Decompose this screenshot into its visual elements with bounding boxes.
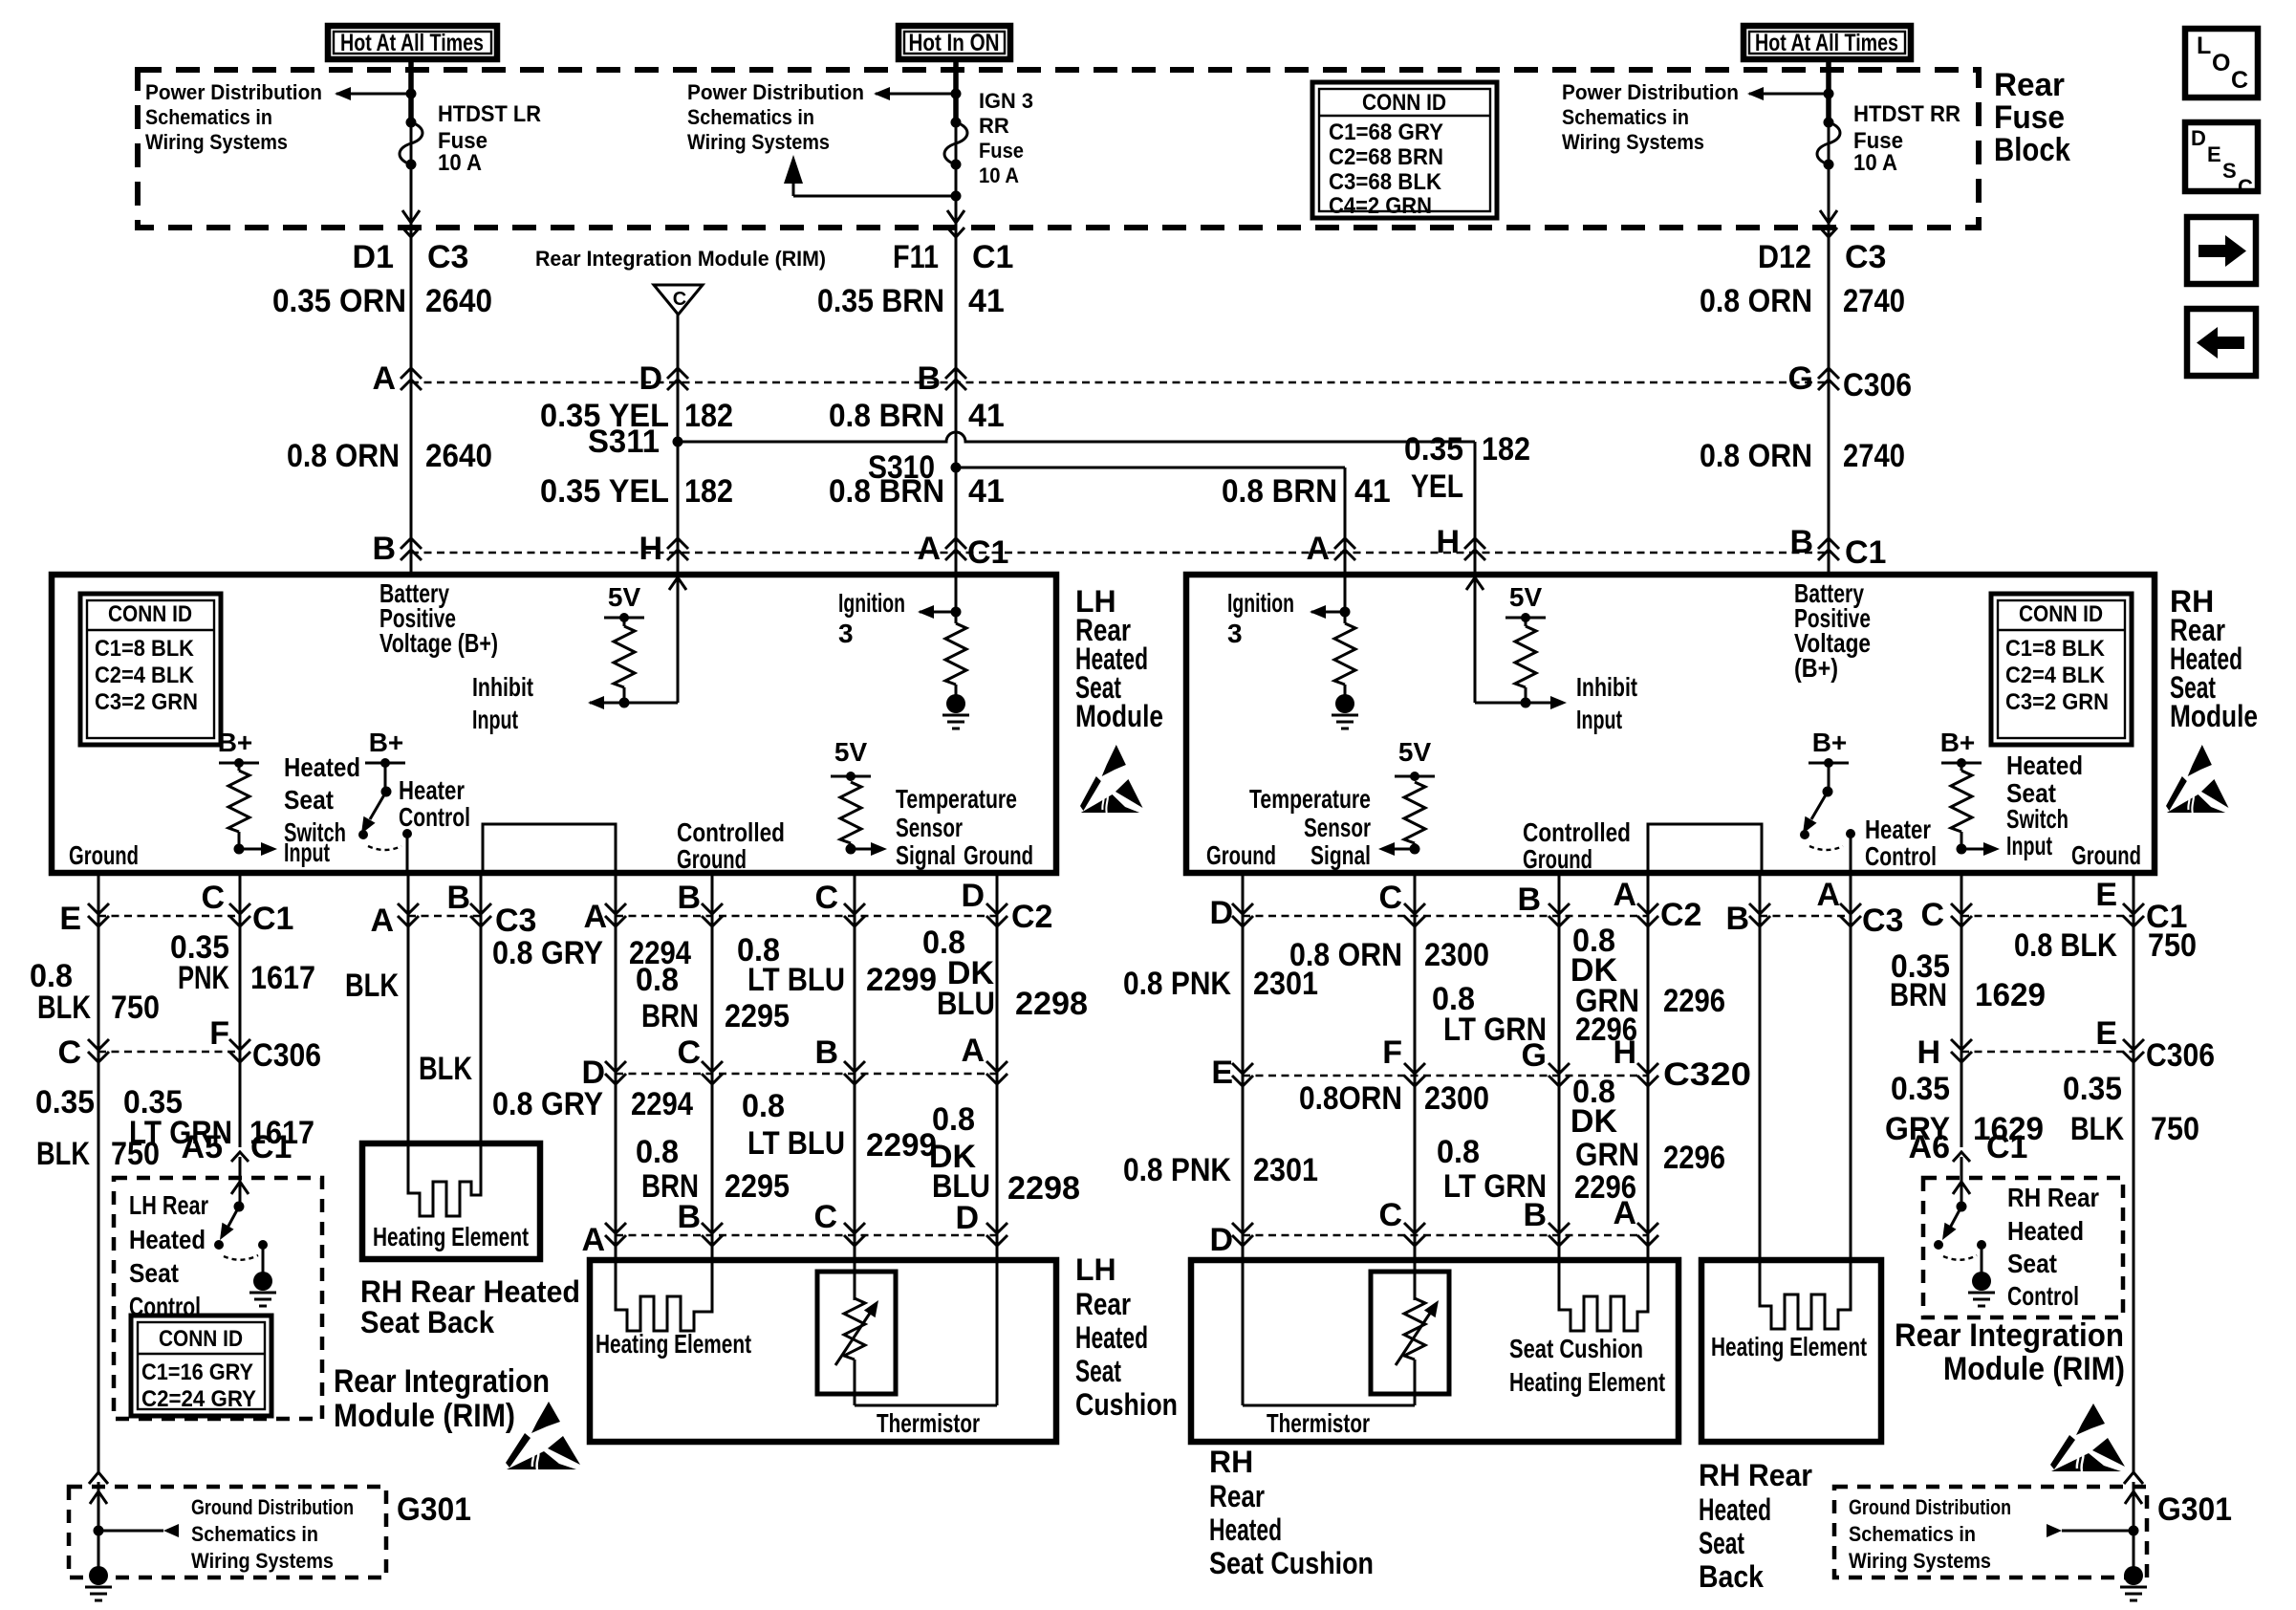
ESD symbol RH xyxy=(2166,745,2229,813)
svg-text:C2: C2 xyxy=(1660,897,1701,933)
svg-text:10 A: 10 A xyxy=(1853,150,1897,176)
CONN ID box (fuse block) xyxy=(1312,82,1497,219)
RH 5V temperature resistor xyxy=(1378,737,1435,856)
LH module name xyxy=(1075,584,1163,733)
svg-text:Ground: Ground xyxy=(677,844,747,874)
arrow left box xyxy=(2187,309,2256,376)
svg-text:Control: Control xyxy=(2007,1281,2079,1311)
svg-text:B: B xyxy=(446,880,470,916)
svg-text:Sensor: Sensor xyxy=(1304,813,1371,842)
svg-text:C: C xyxy=(1378,1197,1402,1233)
svg-text:GRN: GRN xyxy=(1575,1137,1639,1173)
svg-text:YEL: YEL xyxy=(1411,468,1463,505)
RIM triangle connector C xyxy=(654,285,703,315)
G301 left dashed box xyxy=(69,1482,471,1600)
svg-text:Heating Element: Heating Element xyxy=(596,1329,751,1359)
svg-text:3: 3 xyxy=(1227,619,1243,648)
label box Hot In ON xyxy=(899,26,1010,59)
ESD symbol LH xyxy=(1080,745,1143,813)
arrow to Power Distribution (middle) xyxy=(874,87,962,100)
connector row C1 modules (top) xyxy=(372,524,1886,571)
svg-text:Schematics in: Schematics in xyxy=(1849,1522,1976,1546)
svg-text:Sensor: Sensor xyxy=(896,813,963,842)
svg-text:H: H xyxy=(1917,1034,1940,1071)
LH switch input wire 1617 xyxy=(239,873,242,1147)
wire label 0.35 PNK 1617 xyxy=(170,929,315,996)
svg-text:2640: 2640 xyxy=(425,283,492,319)
splice S310 line xyxy=(868,449,1345,486)
svg-text:Control: Control xyxy=(399,802,470,832)
wire label 0.35 ORN 2640 xyxy=(272,283,492,319)
wire label 0.8 GRY 2294 xyxy=(492,935,691,971)
svg-text:L: L xyxy=(2197,33,2211,59)
svg-text:2740: 2740 xyxy=(1843,283,1905,319)
svg-text:C3: C3 xyxy=(495,903,536,939)
svg-text:B: B xyxy=(372,531,396,567)
svg-text:0.8 GRY: 0.8 GRY xyxy=(492,1086,603,1122)
svg-text:Switch: Switch xyxy=(2006,804,2069,834)
Controlled Ground label LH xyxy=(677,817,785,874)
svg-text:A: A xyxy=(370,903,394,939)
wire label 0.8 LT GRN 2296 xyxy=(1432,981,1637,1048)
LH ground wire 750 xyxy=(89,873,108,1484)
svg-text:750: 750 xyxy=(2151,1111,2199,1147)
svg-text:Heated: Heated xyxy=(2006,751,2083,780)
svg-text:Seat Cushion: Seat Cushion xyxy=(1509,1334,1643,1363)
svg-text:Signal: Signal xyxy=(1310,840,1371,870)
svg-text:LH: LH xyxy=(1075,1252,1116,1287)
svg-text:H: H xyxy=(1613,1034,1636,1071)
svg-text:Ground Distribution: Ground Distribution xyxy=(1849,1495,2011,1519)
wire label 0.8 ORN 2640 (lower left) xyxy=(287,438,492,474)
svg-text:Heated: Heated xyxy=(2007,1216,2084,1246)
svg-text:Seat Cushion: Seat Cushion xyxy=(1209,1546,1374,1580)
svg-text:A: A xyxy=(1306,531,1330,567)
svg-text:C1=16 GRY: C1=16 GRY xyxy=(141,1360,253,1385)
Temperature Sensor Signal label RH xyxy=(1249,784,1371,870)
svg-text:0.8: 0.8 xyxy=(742,1088,785,1124)
svg-text:2300: 2300 xyxy=(1424,1080,1489,1117)
wire label 0.8 DK GRN 2296 (lower) xyxy=(1570,1074,1725,1176)
svg-text:Ground: Ground xyxy=(964,840,1033,870)
RH module name xyxy=(2170,584,2258,733)
svg-text:Seat: Seat xyxy=(1699,1526,1744,1560)
svg-text:Rear: Rear xyxy=(1994,67,2065,103)
svg-text:B+: B+ xyxy=(218,728,253,757)
svg-text:C: C xyxy=(2238,175,2253,199)
svg-text:C3=2 GRN: C3=2 GRN xyxy=(2005,689,2109,715)
svg-text:G: G xyxy=(1788,360,1813,397)
svg-text:Controlled: Controlled xyxy=(1523,817,1631,847)
svg-text:Heated: Heated xyxy=(284,752,360,782)
svg-text:D: D xyxy=(955,1200,979,1236)
wire label 0.35 GRY 1629 (lower) xyxy=(1885,1071,2044,1147)
svg-text:A: A xyxy=(583,899,607,935)
svg-text:C: C xyxy=(2231,67,2248,94)
svg-text:41: 41 xyxy=(968,283,1005,319)
fuse IGN3 RR xyxy=(944,89,1033,187)
svg-text:C1: C1 xyxy=(967,534,1008,571)
svg-text:0.35: 0.35 xyxy=(35,1084,95,1120)
svg-text:Temperature: Temperature xyxy=(896,784,1017,814)
svg-text:C1: C1 xyxy=(250,1129,292,1165)
connector C1 pins E,C (LH) xyxy=(59,880,293,937)
LH cushion wire B 2295 xyxy=(711,873,714,1260)
RH cushion inline connector pins D,C,B,A xyxy=(1209,1195,1658,1258)
svg-text:F: F xyxy=(209,1015,229,1052)
svg-text:2296: 2296 xyxy=(1663,1140,1725,1176)
svg-text:Ground: Ground xyxy=(69,840,139,870)
svg-text:Seat: Seat xyxy=(129,1258,179,1288)
RH seat back wire A xyxy=(1850,873,1852,1260)
wire label 0.8 GRY 2294 (lower) xyxy=(492,1086,693,1122)
svg-text:5V: 5V xyxy=(834,737,868,767)
svg-text:0.35 YEL: 0.35 YEL xyxy=(540,473,669,510)
svg-text:A: A xyxy=(1613,877,1636,913)
svg-text:C320: C320 xyxy=(1663,1056,1751,1093)
pin labels F11 C1 xyxy=(893,239,1013,275)
svg-text:3: 3 xyxy=(838,619,854,648)
svg-text:Heating Element: Heating Element xyxy=(1509,1367,1665,1397)
svg-text:1617: 1617 xyxy=(250,960,315,996)
svg-text:C: C xyxy=(1920,897,1944,933)
LH ignition pulldown resistor + ground xyxy=(942,623,969,729)
svg-text:2299: 2299 xyxy=(866,1127,937,1164)
svg-text:182: 182 xyxy=(1482,431,1530,468)
RH Rear Heated Seat Module box xyxy=(1186,575,2155,873)
svg-text:Heating Element: Heating Element xyxy=(1711,1332,1867,1361)
svg-text:0.35: 0.35 xyxy=(1404,431,1463,468)
RH inhibit wire entry xyxy=(1466,575,1484,703)
svg-text:Rear: Rear xyxy=(1209,1479,1265,1513)
svg-text:G: G xyxy=(1522,1037,1547,1074)
pin labels D1 C3 xyxy=(353,239,469,275)
svg-text:Heated: Heated xyxy=(1209,1512,1282,1547)
svg-text:BLU: BLU xyxy=(937,986,995,1022)
Heater Control label xyxy=(399,775,470,832)
svg-text:HTDST RR: HTDST RR xyxy=(1853,101,1960,127)
svg-text:CONN ID: CONN ID xyxy=(1362,90,1446,116)
svg-text:2298: 2298 xyxy=(1007,1170,1080,1207)
LH cushion connector pins D,C,B,A xyxy=(581,1033,1007,1091)
svg-text:G301: G301 xyxy=(2157,1491,2232,1528)
svg-text:Fuse: Fuse xyxy=(1994,99,2065,136)
svg-text:B: B xyxy=(677,1199,701,1235)
svg-text:0.8: 0.8 xyxy=(932,1101,975,1138)
RH switch input wire 1629 xyxy=(1960,873,1963,1147)
connector C3 pins A,B (LH) xyxy=(370,880,536,939)
svg-text:LH Rear: LH Rear xyxy=(129,1190,208,1220)
svg-text:41: 41 xyxy=(968,398,1005,434)
svg-text:2300: 2300 xyxy=(1424,937,1489,973)
svg-text:C2: C2 xyxy=(1011,899,1052,935)
fuse box exit arrows xyxy=(402,210,420,223)
svg-text:10 A: 10 A xyxy=(979,163,1019,187)
Temperature Sensor Signal label LH xyxy=(896,784,1017,870)
wire label 0.8 DK GRN 2296 xyxy=(1570,923,1725,1019)
svg-text:C1=68 GRY: C1=68 GRY xyxy=(1329,120,1443,145)
svg-text:A: A xyxy=(372,360,396,397)
splice S311 line with hop xyxy=(588,424,1475,460)
svg-text:LT BLU: LT BLU xyxy=(747,1125,845,1162)
text Power Distribution (middle) xyxy=(687,80,864,154)
LH cushion wire A 2294 xyxy=(615,873,617,1260)
wire RIM yellow xyxy=(677,315,680,575)
svg-text:0.8: 0.8 xyxy=(636,1134,679,1170)
svg-text:Ground: Ground xyxy=(1206,840,1276,870)
svg-text:RR: RR xyxy=(979,114,1009,138)
svg-text:C3: C3 xyxy=(427,239,468,275)
wire label 0.8 BRN 2295 (lower) xyxy=(636,1134,790,1205)
svg-text:0.8ORN: 0.8ORN xyxy=(1299,1080,1402,1117)
svg-text:0.35 YEL: 0.35 YEL xyxy=(540,398,669,434)
svg-text:Rear Integration: Rear Integration xyxy=(1895,1317,2124,1354)
svg-text:Heated: Heated xyxy=(129,1225,206,1254)
svg-text:Rear Integration: Rear Integration xyxy=(334,1363,550,1400)
LH gry wire B C3 xyxy=(480,873,483,1143)
svg-text:RH Rear: RH Rear xyxy=(2007,1183,2099,1212)
svg-text:Wiring Systems: Wiring Systems xyxy=(1849,1549,1991,1573)
svg-text:Power Distribution: Power Distribution xyxy=(687,80,864,104)
svg-text:2740: 2740 xyxy=(1843,438,1905,474)
connector Y at fuse outputs xyxy=(402,228,420,237)
svg-text:Ground: Ground xyxy=(1523,844,1592,874)
svg-text:10 A: 10 A xyxy=(438,150,482,176)
LH cushion wire C 2299 xyxy=(854,873,856,1260)
LH Rear Heated Seat Module box xyxy=(52,575,1056,873)
LH 5V temperature resistor xyxy=(831,737,887,856)
wire label 0.35 YEL 182 (above C306) xyxy=(540,398,733,434)
LH heater control wire BLK xyxy=(407,873,410,1143)
svg-text:C1=8 BLK: C1=8 BLK xyxy=(2005,636,2106,662)
svg-text:A: A xyxy=(917,531,941,567)
svg-text:BLK: BLK xyxy=(37,990,91,1026)
wire label 0.8 LT GRN 2296 (lower) xyxy=(1437,1134,1636,1206)
svg-text:2301: 2301 xyxy=(1253,1152,1318,1188)
wire label 0.35 BLK 750 xyxy=(35,1084,160,1172)
svg-text:Schematics in: Schematics in xyxy=(145,105,272,129)
svg-text:BRN: BRN xyxy=(641,998,699,1034)
Ignition 3 label LH xyxy=(838,588,905,648)
Ignition 3 label RH xyxy=(1227,588,1294,648)
svg-text:0.8 ORN: 0.8 ORN xyxy=(1700,438,1812,474)
RH ignition pulldown resistor + ground xyxy=(1332,623,1358,729)
svg-text:B: B xyxy=(1523,1197,1547,1233)
svg-text:Seat: Seat xyxy=(284,785,334,815)
svg-text:0.35 ORN: 0.35 ORN xyxy=(272,283,406,319)
svg-text:C1: C1 xyxy=(252,901,293,937)
svg-text:0.8: 0.8 xyxy=(636,962,679,998)
svg-text:D12: D12 xyxy=(1758,239,1811,275)
svg-text:C3: C3 xyxy=(1862,903,1903,939)
svg-text:Hot At All Times: Hot At All Times xyxy=(340,30,484,56)
RH seat back wire B xyxy=(1759,873,1762,1260)
wire label 0.35 BRN 41 xyxy=(817,283,1005,319)
svg-text:C: C xyxy=(57,1034,81,1071)
DESC box xyxy=(2185,122,2258,199)
svg-text:B+: B+ xyxy=(1812,728,1848,757)
svg-text:Inhibit: Inhibit xyxy=(1576,672,1637,702)
svg-text:Schematics in: Schematics in xyxy=(687,105,814,129)
LH B+ heater control switch xyxy=(356,728,412,873)
LOC box xyxy=(2185,29,2258,98)
svg-text:Input: Input xyxy=(472,705,518,734)
Heater Control label RH xyxy=(1865,815,1937,871)
Heated Seat Switch Input label RH xyxy=(2006,751,2083,860)
wire label 0.8 PNK 2301 (lower) xyxy=(1123,1152,1318,1188)
svg-text:B: B xyxy=(1789,524,1813,560)
wire label 0.8 ORN 2740 xyxy=(1700,283,1905,319)
svg-text:A5: A5 xyxy=(182,1129,223,1165)
svg-text:41: 41 xyxy=(968,473,1005,510)
wire label 0.35 182 YEL (RH inhibit) xyxy=(1404,431,1530,505)
svg-text:Ground: Ground xyxy=(2071,840,2141,870)
svg-text:Ground Distribution: Ground Distribution xyxy=(191,1495,354,1519)
svg-text:Power Distribution: Power Distribution xyxy=(1562,80,1739,104)
svg-text:LT BLU: LT BLU xyxy=(747,962,845,998)
LH inhibit wire entry xyxy=(669,575,686,703)
svg-text:G301: G301 xyxy=(397,1491,471,1528)
svg-text:5V: 5V xyxy=(1398,737,1432,767)
svg-text:C2=24 GRY: C2=24 GRY xyxy=(141,1386,256,1412)
LH B+ heated seat switch resistor xyxy=(218,728,277,856)
LH 5V inhibit resistor xyxy=(604,582,644,708)
svg-text:1629: 1629 xyxy=(1975,977,2046,1013)
svg-text:CONN ID: CONN ID xyxy=(159,1326,243,1352)
arrow right box xyxy=(2187,217,2256,284)
svg-text:F11: F11 xyxy=(893,239,939,275)
ESD symbol bottom right xyxy=(2050,1403,2125,1471)
svg-text:2295: 2295 xyxy=(725,1168,790,1205)
svg-text:C3=68 BLK: C3=68 BLK xyxy=(1329,169,1442,195)
svg-text:O: O xyxy=(2212,50,2230,76)
svg-text:0.35: 0.35 xyxy=(1891,1071,1950,1107)
svg-text:(B+): (B+) xyxy=(1794,653,1838,683)
svg-text:Heater: Heater xyxy=(399,775,465,805)
svg-text:D: D xyxy=(1209,1222,1233,1258)
svg-text:0.8 GRY: 0.8 GRY xyxy=(492,935,603,971)
svg-text:Seat: Seat xyxy=(2007,1249,2057,1278)
RH inhibit arrow xyxy=(1475,696,1567,709)
svg-text:PNK: PNK xyxy=(178,960,229,996)
svg-text:BLK: BLK xyxy=(2070,1111,2124,1147)
svg-text:Module: Module xyxy=(2170,699,2258,733)
svg-text:B+: B+ xyxy=(1940,728,1976,757)
svg-text:C: C xyxy=(677,1034,701,1071)
svg-text:C3: C3 xyxy=(1845,239,1886,275)
svg-text:Controlled: Controlled xyxy=(677,817,785,847)
svg-text:A: A xyxy=(961,1033,985,1069)
svg-text:H: H xyxy=(639,531,662,567)
svg-text:Seat: Seat xyxy=(1075,1354,1121,1388)
arrow to Power Distribution (right) xyxy=(1747,87,1834,100)
svg-text:C1: C1 xyxy=(1845,534,1886,571)
svg-text:C: C xyxy=(813,1199,837,1235)
svg-text:Thermistor: Thermistor xyxy=(877,1408,980,1438)
connector C3 pins B,A (RH) xyxy=(1725,877,1903,939)
label box Hot At All Times (right) xyxy=(1744,26,1911,59)
svg-text:BLK: BLK xyxy=(36,1136,90,1172)
svg-text:C306: C306 xyxy=(1843,367,1912,403)
fuse HTDST LR xyxy=(400,101,541,176)
svg-text:Signal: Signal xyxy=(896,840,956,870)
svg-text:Wiring Systems: Wiring Systems xyxy=(145,130,288,154)
svg-text:B+: B+ xyxy=(369,728,404,757)
connector C2 pins A,B,C,D (LH) xyxy=(583,878,1052,935)
svg-text:C: C xyxy=(201,880,225,916)
svg-text:0.8 BRN: 0.8 BRN xyxy=(829,398,944,434)
wire label 0.8 ORN 2300 (lower) xyxy=(1299,1080,1489,1117)
svg-text:Heated: Heated xyxy=(1699,1492,1771,1527)
LH cushion wire D 2298 xyxy=(996,873,999,1260)
svg-text:C: C xyxy=(1378,880,1402,916)
svg-text:Seat Back: Seat Back xyxy=(360,1305,494,1339)
svg-text:B: B xyxy=(677,880,701,916)
RH cushion wire C 2300 xyxy=(1414,873,1417,1260)
svg-text:Block: Block xyxy=(1994,132,2070,168)
svg-text:C2=4 BLK: C2=4 BLK xyxy=(2005,663,2106,688)
wire label 0.8 BRN 2295 xyxy=(636,962,790,1034)
svg-text:Power Distribution: Power Distribution xyxy=(145,80,322,104)
label box Hot At All Times (left) xyxy=(328,26,497,59)
svg-text:H: H xyxy=(1436,524,1460,560)
svg-text:C1: C1 xyxy=(1986,1129,2027,1165)
svg-text:Heated: Heated xyxy=(1075,1320,1148,1355)
connector C306 pins C,F (LH) xyxy=(57,1015,321,1074)
connector C320 pins E,F,G,H (RH) xyxy=(1211,1034,1751,1093)
svg-text:IGN 3: IGN 3 xyxy=(979,89,1033,113)
svg-text:C306: C306 xyxy=(252,1037,321,1074)
svg-text:2294: 2294 xyxy=(631,1086,693,1122)
svg-text:BLK: BLK xyxy=(419,1051,472,1087)
svg-text:2298: 2298 xyxy=(1015,986,1088,1022)
svg-text:0.8 BRN: 0.8 BRN xyxy=(1222,473,1337,510)
wire label 0.35 BLK 750 (lower RH) xyxy=(2063,1071,2199,1147)
svg-text:0.8 PNK: 0.8 PNK xyxy=(1123,1152,1231,1188)
svg-text:Voltage (B+): Voltage (B+) xyxy=(379,628,498,658)
svg-text:Heater: Heater xyxy=(1865,815,1931,844)
svg-text:Schematics in: Schematics in xyxy=(1562,105,1689,129)
Rear Fuse Block dashed box xyxy=(138,70,1979,228)
fuse HTDST RR xyxy=(1817,101,1960,176)
svg-text:BRN: BRN xyxy=(1890,977,1947,1013)
svg-text:Module: Module xyxy=(1075,699,1163,733)
wire HTDST RR fuse feed xyxy=(1828,59,1830,575)
wire IGN3 RR fuse feed xyxy=(955,59,958,575)
svg-text:0.8 BRN: 0.8 BRN xyxy=(829,473,944,510)
svg-text:2640: 2640 xyxy=(425,438,492,474)
text Power Distribution (right) xyxy=(1562,80,1739,154)
RH 5V inhibit resistor xyxy=(1505,582,1546,708)
svg-text:C4=2 GRN: C4=2 GRN xyxy=(1329,193,1432,219)
svg-text:A: A xyxy=(581,1222,605,1258)
svg-text:Module (RIM): Module (RIM) xyxy=(334,1398,515,1434)
svg-text:E: E xyxy=(1211,1055,1233,1091)
Controlled Ground label RH xyxy=(1523,817,1631,874)
svg-text:D: D xyxy=(2191,126,2206,150)
connector C306 pins H,E (RH) xyxy=(1917,1015,2215,1074)
ESD symbol bottom left xyxy=(506,1402,580,1469)
wire label 0.8 LT BLU 2299 xyxy=(737,932,937,998)
svg-text:DK: DK xyxy=(1570,1103,1618,1140)
svg-text:RH: RH xyxy=(1209,1445,1253,1479)
svg-text:Hot At All Times: Hot At All Times xyxy=(1755,30,1898,56)
connector A5 C1 xyxy=(182,1129,292,1165)
svg-text:5V: 5V xyxy=(608,582,641,612)
svg-text:Control: Control xyxy=(1865,841,1937,871)
svg-text:E: E xyxy=(2207,142,2221,166)
G301 right dashed box xyxy=(1834,1482,2232,1600)
